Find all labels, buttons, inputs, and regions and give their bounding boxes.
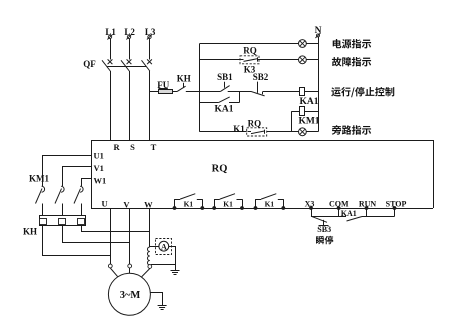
svg-text:RQ: RQ (243, 45, 257, 55)
terminal COM (329, 199, 349, 216)
lamp HL3 bypass indicator (299, 128, 307, 136)
wire L2 down to QF (129, 39, 131, 60)
motor lead U (110, 268, 117, 277)
svg-text:R: R (114, 142, 121, 152)
svg-text:K1: K1 (223, 200, 233, 209)
terminal N (315, 26, 322, 38)
wire L1 down to QF (110, 39, 112, 60)
svg-text:W1: W1 (94, 175, 107, 185)
wire KM1 pole3 to KH (81, 204, 83, 216)
wire run/stop rung segment 1 (200, 91, 221, 93)
svg-text:KA1: KA1 (341, 209, 357, 218)
fuse FU (157, 80, 172, 94)
svg-text:SB2: SB2 (253, 72, 269, 82)
svg-text:K1: K1 (184, 200, 194, 209)
wire ammeter to ground (151, 247, 176, 265)
svg-text:V1: V1 (94, 163, 104, 173)
ammeter PA (150, 239, 172, 255)
svg-text:KA1: KA1 (300, 97, 319, 107)
ground (motor frame) (158, 306, 167, 310)
current transformer coil on W line (148, 247, 150, 265)
label 瞬停 (316, 236, 333, 245)
wire run/stop rung segment 3 (263, 91, 300, 93)
wire motor frame to ground (151, 293, 163, 306)
svg-text:3~M: 3~M (120, 290, 141, 301)
bypass contact K1 pole 1 (173, 194, 205, 210)
wire W1 to KM1 pole3 (82, 179, 92, 187)
wire QF pole1 to terminal R (110, 71, 112, 141)
svg-text:SB3: SB3 (317, 225, 331, 234)
terminal L1 (105, 27, 116, 39)
neutral bus (right vertical) (318, 37, 320, 132)
wire output V to motor (129, 208, 131, 264)
contactor coil KM1 (298, 107, 319, 127)
wire QF pole2 to terminal S (129, 71, 131, 141)
wire KM1 pole1 to KH (42, 204, 44, 216)
ground (ammeter circuit) (171, 271, 180, 275)
motor terminal U (108, 264, 112, 268)
motor terminal W (148, 265, 152, 269)
wire KM1-coil branch (292, 111, 300, 132)
svg-text:KM1: KM1 (298, 117, 319, 127)
svg-text:U: U (102, 199, 108, 209)
pushbutton SB2 stop (252, 72, 269, 96)
bottom bus of soft starter (91, 208, 433, 210)
contact KA1 run command (341, 209, 362, 221)
svg-text:STOP: STOP (386, 199, 407, 208)
label 故障指示 (332, 57, 371, 66)
wire coil KA1 to neutral bus (305, 91, 318, 93)
svg-text:K1: K1 (233, 124, 245, 134)
control bus (left vertical) (199, 44, 201, 132)
svg-text:QF: QF (83, 59, 96, 69)
svg-text:T: T (151, 142, 157, 152)
wire KH to control bus (186, 91, 200, 93)
wire QF pole3 to terminal T (149, 71, 151, 141)
soft starter bypass contact K1 (RQ) (233, 118, 266, 136)
control sub-wire segment 1 (311, 216, 346, 218)
contact KA1 self-hold (215, 97, 234, 115)
thermal overload relay KH (23, 216, 86, 237)
svg-text:L2: L2 (124, 27, 135, 37)
svg-text:RUN: RUN (359, 199, 377, 208)
lamp HL1 power indicator (299, 40, 307, 48)
svg-text:KM1: KM1 (29, 173, 49, 183)
label 旁路指示 (332, 125, 371, 135)
thermal relay contact KH (177, 74, 191, 92)
self-hold branch wire (200, 92, 240, 103)
lamp HL2 fault indicator (299, 56, 307, 64)
svg-text:L3: L3 (145, 27, 156, 37)
wire output W to motor (149, 208, 151, 247)
motor M (108, 273, 150, 315)
svg-text:FU: FU (157, 80, 169, 90)
label 运行/停止控制 (331, 87, 394, 97)
wire KH pole2 to motor line V (63, 226, 130, 243)
svg-text:RQ: RQ (212, 164, 228, 175)
svg-text:KH: KH (23, 226, 37, 236)
terminal STOP (386, 199, 407, 216)
circuit breaker QF (83, 59, 152, 71)
wire KH pole1 to motor line U (43, 226, 111, 256)
terminal L2 (124, 27, 135, 39)
wire bypass-indicator rung (200, 131, 318, 133)
pushbutton SB1 start (217, 72, 233, 91)
bypass contactor KM1 main contacts (29, 173, 83, 203)
terminal L3 (145, 27, 156, 39)
svg-text:S: S (130, 142, 135, 152)
control sub-wire X3 drop (311, 208, 313, 217)
svg-text:X3: X3 (305, 199, 315, 208)
wire U1 to KM1 pole1 (43, 156, 92, 187)
wire V1 to KM1 pole2 (63, 167, 92, 187)
wire coil KM1 to neutral bus (305, 111, 318, 113)
label 电源指示 (333, 39, 371, 48)
wire fault-indicator rung (200, 59, 318, 61)
soft starter RQ enclosure (92, 141, 434, 209)
wire T-phase branch to fuse (150, 91, 159, 93)
svg-text:SB1: SB1 (217, 72, 233, 82)
svg-text:K1: K1 (265, 200, 275, 209)
relay coil KA1 (300, 88, 319, 108)
wire fuse to KH contact (173, 91, 178, 93)
motor lead V (129, 268, 131, 273)
wire L3 down to QF (149, 39, 151, 60)
svg-text:KA1: KA1 (215, 105, 234, 115)
wire KM1 pole2 to KH (62, 204, 64, 216)
svg-text:COM: COM (329, 199, 349, 208)
bypass contact K1 pole 3 (254, 194, 286, 210)
svg-text:U1: U1 (94, 151, 104, 161)
motor lead W (142, 269, 150, 277)
soft starter fault contact K3 (RQ) (240, 45, 259, 74)
terminal RUN (359, 199, 377, 216)
wire KH pole3 to motor line W (82, 226, 150, 232)
wire power-indicator rung (200, 43, 318, 45)
svg-text:A: A (161, 242, 167, 251)
terminal X3 (305, 199, 315, 210)
control sub-wire segment 2 (362, 216, 395, 218)
svg-text:N: N (315, 26, 322, 36)
wire output U to motor (110, 208, 112, 264)
svg-text:KH: KH (177, 74, 191, 84)
bypass contact K1 pole 2 (212, 194, 244, 210)
svg-text:RQ: RQ (248, 118, 262, 128)
wire run/stop rung segment 2 (228, 91, 252, 93)
motor terminal V (128, 264, 132, 268)
pushbutton SB3 momentary stop (311, 216, 331, 234)
wire CT to motor terminal W (149, 264, 151, 267)
svg-text:L1: L1 (105, 27, 116, 37)
